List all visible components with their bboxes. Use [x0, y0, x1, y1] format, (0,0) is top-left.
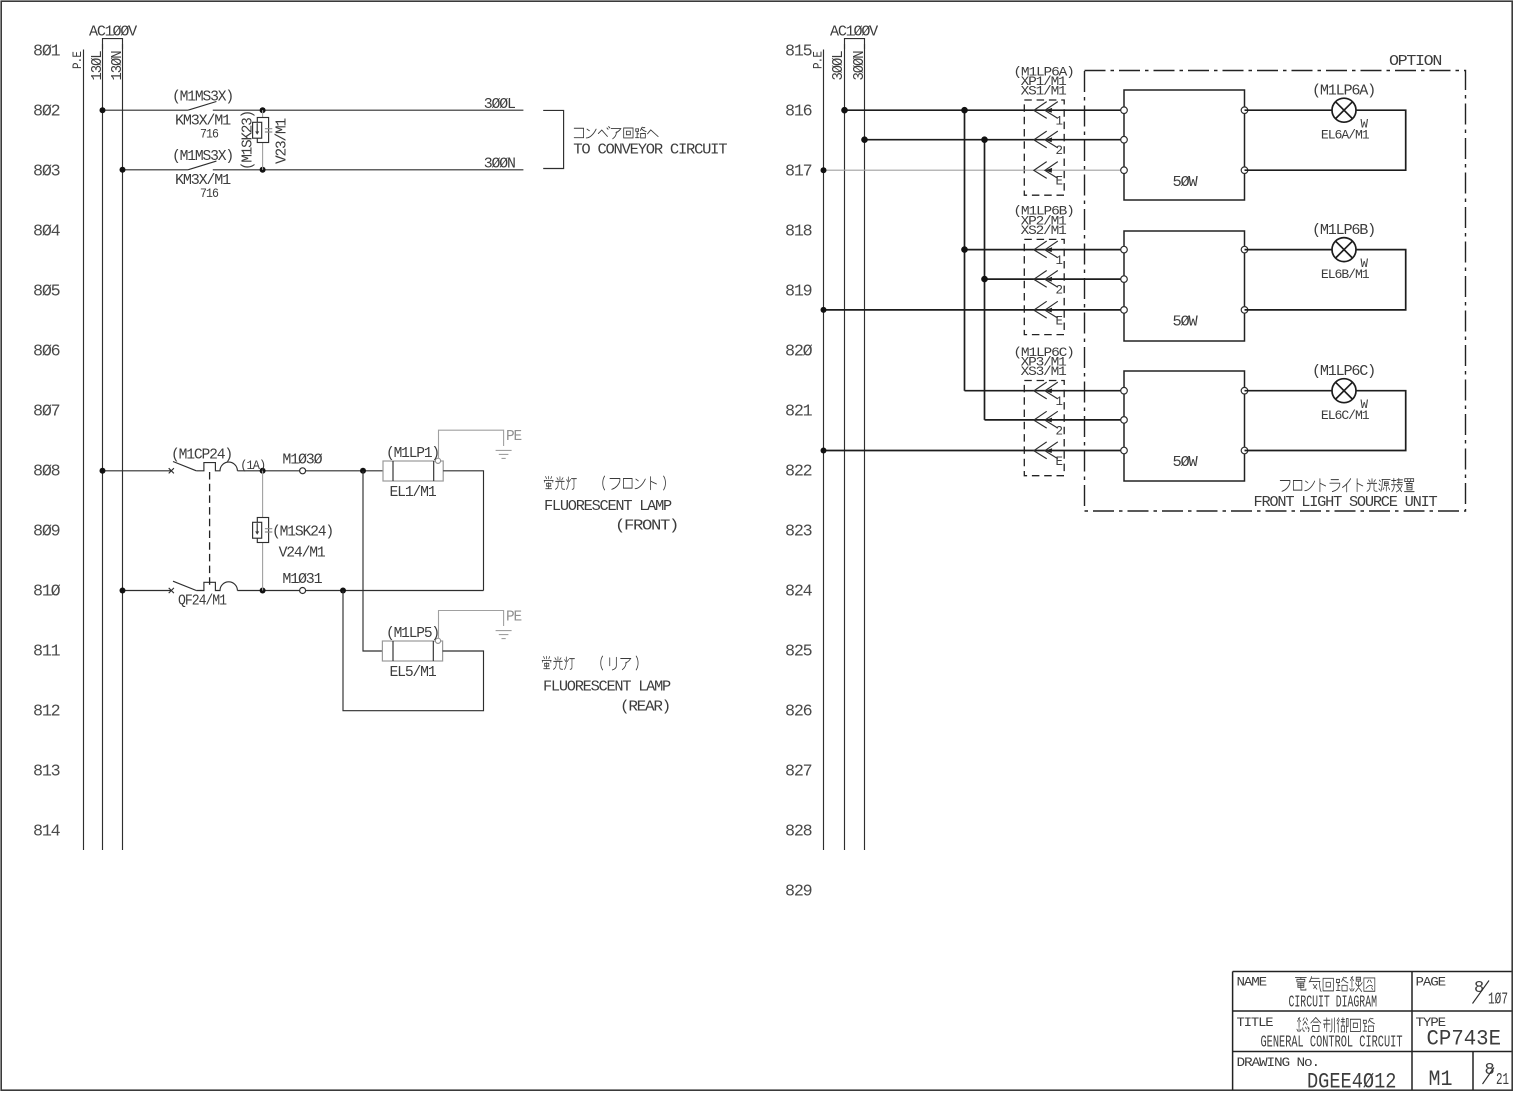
breaker QF24 mechanical link (dashed) — [209, 472, 211, 589]
svg-text:21: 21 — [1496, 1071, 1509, 1090]
wire psu A to lamp — [1245, 109, 1333, 111]
svg-text:PE: PE — [506, 428, 522, 445]
svg-text:827: 827 — [785, 763, 812, 782]
junction 816/V1 — [961, 107, 968, 114]
svg-text:8Ø2: 8Ø2 — [33, 103, 60, 122]
svg-text:3ØØN: 3ØØN — [851, 51, 868, 80]
note: front light source unit (jp) — [1280, 478, 1414, 492]
note: to conveyor circuit (jp) — [574, 127, 658, 139]
svg-text:8Ø9: 8Ø9 — [33, 523, 60, 542]
svg-text:EL1/M1: EL1/M1 — [390, 484, 437, 501]
svg-text:(M1CP24): (M1CP24) — [171, 446, 232, 463]
svg-text:EL6B/M1: EL6B/M1 — [1321, 268, 1369, 282]
svg-text:13ØL: 13ØL — [89, 50, 106, 80]
svg-text:CP743E: CP743E — [1427, 1027, 1502, 1052]
wire lamp A return loop — [1245, 110, 1406, 170]
breaker QF24 pole2 notch+arc — [196, 582, 237, 591]
lamp EL5 PE terminal — [435, 638, 440, 643]
wire pin1 unit C — [965, 390, 1125, 392]
psu C right terminal — [1241, 387, 1248, 394]
surge absorber V24/M1 (M1SK24) — [253, 518, 273, 543]
psu A right terminal — [1241, 107, 1248, 114]
svg-text:NAME: NAME — [1237, 976, 1267, 990]
wire pin2 unit B — [985, 278, 1125, 280]
svg-text:PE: PE — [506, 608, 522, 625]
junction 816b/V2 — [981, 136, 988, 143]
rail 130L — [102, 44, 104, 850]
junction 802/V23 — [260, 107, 266, 113]
svg-text:FLUORESCENT LAMP: FLUORESCENT LAMP — [544, 498, 672, 515]
svg-text:81Ø: 81Ø — [33, 583, 60, 602]
wire pin1 unit A — [845, 109, 1125, 111]
svg-text:EL6A/M1: EL6A/M1 — [1321, 129, 1369, 143]
svg-text:DRAWING No.: DRAWING No. — [1237, 1056, 1320, 1070]
title: general control circuit (jp) — [1297, 1018, 1374, 1033]
connector contact pin 2 unit B — [1034, 271, 1058, 288]
junction 130N/810 — [120, 588, 126, 594]
svg-text:829: 829 — [785, 883, 812, 902]
wire psu B to lamp — [1245, 249, 1333, 251]
svg-text:818: 818 — [785, 223, 812, 242]
psu B left terminal — [1121, 307, 1128, 314]
lamp EL1 PE terminal — [435, 458, 440, 463]
svg-text:8Ø4: 8Ø4 — [33, 223, 60, 242]
svg-text:XS1/M1: XS1/M1 — [1021, 85, 1067, 99]
svg-text:(M1LP5): (M1LP5) — [386, 625, 439, 642]
svg-text:2: 2 — [1056, 284, 1063, 298]
svg-text:8: 8 — [1485, 1061, 1495, 1080]
wire lamp B return loop — [1245, 250, 1406, 310]
svg-text:PAGE: PAGE — [1416, 976, 1446, 990]
svg-text:XS2/M1: XS2/M1 — [1021, 224, 1067, 238]
wire row 810 to EL1 return — [237, 590, 483, 592]
svg-text:EL5/M1: EL5/M1 — [390, 664, 437, 681]
wire row 802 from 130L — [103, 109, 189, 111]
svg-text:716: 716 — [200, 128, 218, 142]
junction 810/EL5-return — [340, 588, 346, 594]
junction V1/B1 — [961, 246, 968, 253]
connector contact pin 1 unit C — [1034, 382, 1058, 399]
svg-text:QF24/M1: QF24/M1 — [178, 593, 227, 610]
svg-text:828: 828 — [785, 823, 812, 842]
wire pinE unit B — [824, 309, 1125, 311]
junction 803/V23 — [260, 167, 266, 173]
svg-text:M1Ø31: M1Ø31 — [282, 571, 322, 588]
wire row 803 to 300N — [213, 169, 524, 171]
svg-text:716: 716 — [200, 187, 218, 201]
svg-text:M1: M1 — [1429, 1067, 1453, 1092]
connector contact pin E unit A — [1034, 162, 1058, 179]
rail P.E (right) — [823, 50, 825, 851]
svg-text:(M1LP6C): (M1LP6C) — [1312, 363, 1375, 380]
wire pinE unit A — [824, 169, 1125, 171]
svg-text:E: E — [1056, 175, 1063, 189]
wire row 802 to 300L — [213, 109, 524, 111]
svg-text:TO CONVEYOR CIRCUIT: TO CONVEYOR CIRCUIT — [573, 141, 727, 158]
svg-text:825: 825 — [785, 643, 812, 662]
rail 300L — [844, 44, 846, 850]
svg-text:FLUORESCENT LAMP: FLUORESCENT LAMP — [543, 679, 671, 696]
svg-text:812: 812 — [33, 703, 60, 722]
breaker QF24 pole2 x-mark — [169, 588, 174, 593]
note: fluorescent lamp front (jp) — [544, 476, 576, 489]
svg-text:(1A): (1A) — [240, 459, 265, 473]
wire 808 drop to EL5 — [363, 471, 382, 651]
wire pin2 unit A — [865, 139, 1125, 141]
svg-text:819: 819 — [785, 283, 812, 302]
ground PE (EL1) — [496, 450, 512, 458]
psu B left terminal — [1121, 246, 1128, 253]
svg-text:(M1SK23): (M1SK23) — [240, 111, 257, 170]
junction PE rail unit A — [821, 167, 827, 173]
wire row 808 to lamp EL1 — [237, 470, 383, 472]
psu C left terminal — [1121, 417, 1128, 424]
wire vertical 300L feeder — [964, 110, 966, 391]
svg-text:3ØØL: 3ØØL — [830, 50, 847, 80]
svg-text:(M1MS3X): (M1MS3X) — [172, 89, 233, 106]
svg-text:814: 814 — [33, 823, 60, 842]
svg-text:(M1LP6B): (M1LP6B) — [1312, 222, 1375, 239]
junction 300L/816 — [841, 107, 848, 114]
svg-text:821: 821 — [785, 403, 812, 422]
junction V2/B2 — [981, 276, 988, 283]
connector XP2/XS2 (M1LP6B) dashed box — [1024, 239, 1064, 334]
psu C left terminal — [1121, 447, 1128, 454]
junction PE rail unit C — [821, 448, 827, 454]
svg-text:(M1LP1): (M1LP1) — [386, 445, 439, 462]
power supply unit 50W (B) — [1124, 231, 1245, 341]
wire V23 vertical — [262, 110, 264, 170]
svg-text:824: 824 — [785, 583, 812, 602]
svg-text:8Ø7: 8Ø7 — [33, 403, 60, 422]
title: circuit diagram (jp) — [1295, 977, 1374, 992]
wire pinE unit C — [824, 450, 1125, 452]
wire lamp C return loop — [1245, 391, 1406, 451]
psu B left terminal — [1121, 276, 1128, 283]
svg-text:(M1SK24): (M1SK24) — [272, 524, 333, 541]
svg-text:8Ø5: 8Ø5 — [33, 283, 60, 302]
rail 300N — [864, 44, 866, 850]
rail 130N — [122, 44, 124, 850]
svg-text:GENERAL CONTROL CIRCUIT: GENERAL CONTROL CIRCUIT — [1261, 1034, 1403, 1053]
svg-text:1: 1 — [1056, 395, 1063, 409]
svg-text:(FRONT): (FRONT) — [615, 518, 678, 535]
svg-text:E: E — [1056, 314, 1063, 328]
breaker QF24 pole1 notch+arc — [196, 462, 237, 471]
connector contact pin 1 unit B — [1034, 241, 1058, 258]
svg-text:TITLE: TITLE — [1237, 1016, 1274, 1030]
svg-text:5ØW: 5ØW — [1173, 314, 1198, 331]
wire pin2 unit C — [985, 419, 1125, 421]
connector contact pin 1 unit A — [1034, 102, 1058, 119]
psu A left terminal — [1121, 167, 1128, 174]
psu C left terminal — [1121, 387, 1128, 394]
rail P.E (left) — [83, 50, 85, 851]
svg-text:817: 817 — [785, 163, 812, 182]
fluorescent lamp EL1/M1 (M1LP1) body — [383, 461, 443, 481]
terminal M1031 — [300, 588, 306, 594]
conveyor bracket — [543, 110, 563, 168]
breaker QF24 pole2 blade — [173, 581, 196, 590]
psu B right terminal — [1241, 246, 1248, 253]
wire EL5 return loop — [343, 591, 484, 711]
svg-text:M1Ø3Ø: M1Ø3Ø — [282, 451, 322, 468]
svg-text:V24/M1: V24/M1 — [279, 544, 326, 561]
svg-text:823: 823 — [785, 523, 812, 542]
svg-text:811: 811 — [33, 643, 60, 662]
wire V24 vertical — [262, 471, 264, 591]
lamp EL6B/M1 (M1LP6B) — [1332, 238, 1356, 262]
breaker QF24 pole1 x-mark — [169, 468, 174, 473]
junction 130L/802 — [100, 107, 106, 113]
wire EL1 output — [443, 471, 483, 591]
connector contact pin E unit C — [1034, 442, 1058, 459]
connector XP3/XS3 (M1LP6C) dashed box — [1024, 381, 1064, 476]
svg-text:CIRCUIT DIAGRAM: CIRCUIT DIAGRAM — [1289, 994, 1378, 1013]
psu C right terminal — [1241, 447, 1248, 454]
breaker QF24 pole1 blade — [173, 462, 196, 471]
svg-text:3ØØL: 3ØØL — [484, 96, 516, 113]
bus bracket (right) — [845, 39, 865, 49]
wire row 808 from 130L — [103, 470, 171, 472]
wire row 803 from 130N — [123, 169, 189, 171]
svg-text:(REAR): (REAR) — [620, 699, 670, 716]
svg-text:OPTION: OPTION — [1389, 53, 1441, 70]
svg-text:8Ø8: 8Ø8 — [33, 463, 60, 482]
connector contact pin 2 unit C — [1034, 411, 1058, 428]
ground PE (EL5) — [496, 631, 512, 639]
wire EL1 PE to ground — [439, 430, 504, 458]
bus bracket (left) — [103, 39, 123, 49]
svg-text:813: 813 — [33, 763, 60, 782]
svg-text:V23/M1: V23/M1 — [274, 118, 291, 164]
svg-text:8Ø1: 8Ø1 — [33, 43, 60, 62]
svg-text:EL6C/M1: EL6C/M1 — [1321, 409, 1369, 423]
OPTION enclosure (dash-dot) — [1085, 71, 1466, 512]
fluorescent lamp EL5/M1 (M1LP5) body — [382, 641, 442, 661]
svg-text:13ØN: 13ØN — [109, 51, 126, 80]
svg-text:P.E: P.E — [812, 52, 826, 69]
svg-text:5ØW: 5ØW — [1173, 454, 1198, 471]
svg-text:2: 2 — [1056, 144, 1063, 158]
junction 130L/808 — [100, 468, 106, 474]
junction PE rail unit B — [821, 307, 827, 313]
svg-text:5ØW: 5ØW — [1173, 174, 1198, 191]
svg-text:1: 1 — [1056, 115, 1063, 129]
svg-text:(M1LP6A): (M1LP6A) — [1312, 83, 1375, 100]
junction 808/V24 — [260, 468, 266, 474]
power supply unit 50W (A) — [1124, 90, 1245, 200]
svg-text:1Ø7: 1Ø7 — [1488, 991, 1508, 1010]
note: fluorescent lamp rear (jp) — [542, 656, 574, 669]
lamp EL6C/M1 (M1LP6C) — [1332, 379, 1356, 403]
connector contact pin E unit B — [1034, 301, 1058, 318]
svg-text:FRONT LIGHT SOURCE UNIT: FRONT LIGHT SOURCE UNIT — [1254, 494, 1438, 511]
svg-text:822: 822 — [785, 463, 812, 482]
lamp EL6A/M1 (M1LP6A) — [1332, 98, 1356, 122]
svg-text:DGEE4Ø12: DGEE4Ø12 — [1307, 1070, 1397, 1093]
svg-text:E: E — [1056, 455, 1063, 469]
contact KM3X/M1 (M1MS3X) row 803 — [188, 161, 216, 170]
svg-text:XS3/M1: XS3/M1 — [1021, 365, 1067, 379]
psu A left terminal — [1121, 136, 1128, 143]
wire EL5 PE to ground — [439, 611, 504, 639]
psu A left terminal — [1121, 107, 1128, 114]
wire row 810 from 130N — [123, 590, 171, 592]
svg-text:8Ø6: 8Ø6 — [33, 343, 60, 362]
surge absorber V23/M1 (M1SK23) — [253, 118, 273, 143]
connector contact pin 2 unit A — [1034, 131, 1058, 148]
junction 130N/803 — [120, 167, 126, 173]
svg-text:82Ø: 82Ø — [785, 343, 812, 362]
power supply unit 50W (C) — [1124, 371, 1245, 481]
svg-text:826: 826 — [785, 703, 812, 722]
svg-text:P.E: P.E — [71, 52, 85, 69]
contact KM3X/M1 (M1MS3X) row 802 — [188, 102, 216, 111]
svg-text:(M1MS3X): (M1MS3X) — [172, 148, 233, 165]
svg-text:815: 815 — [785, 43, 812, 62]
wire psu C to lamp — [1245, 390, 1333, 392]
connector XP1/XS1 (M1LP6A) dashed box — [1024, 100, 1064, 195]
junction 808/EL5-drop — [360, 468, 366, 474]
terminal M1030 — [300, 468, 306, 474]
psu A right terminal — [1241, 167, 1248, 174]
svg-text:3ØØN: 3ØØN — [484, 155, 515, 172]
junction 810/V24 — [260, 588, 266, 594]
wire vertical 300N feeder — [984, 140, 986, 420]
svg-text:1: 1 — [1056, 254, 1063, 268]
svg-text:AC1ØØV: AC1ØØV — [830, 24, 878, 41]
svg-text:816: 816 — [785, 103, 812, 122]
svg-text:8Ø3: 8Ø3 — [33, 163, 60, 182]
wire pin1 unit B — [965, 249, 1125, 251]
junction 300N/816b — [861, 136, 868, 143]
psu B right terminal — [1241, 307, 1248, 314]
svg-text:2: 2 — [1056, 424, 1063, 438]
title block frame — [1233, 972, 1512, 1091]
svg-text:AC1ØØV: AC1ØØV — [89, 24, 137, 41]
